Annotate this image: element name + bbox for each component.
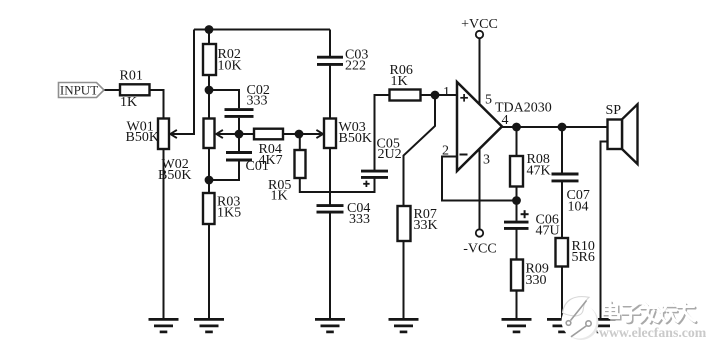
- svg-text:33K: 33K: [414, 218, 438, 233]
- wire C05 top to R06: [375, 95, 390, 171]
- wire rail down to W01 wiper: [172, 30, 194, 135]
- -VCC terminal: [476, 229, 483, 236]
- ground W01: [149, 319, 179, 332]
- wire W01 bottom to ground: [163, 149, 165, 319]
- svg-text:1K: 1K: [120, 95, 137, 110]
- junction node output-R08: [512, 123, 521, 132]
- wire feedback node down to R07: [404, 95, 436, 206]
- svg-text:B50K: B50K: [158, 168, 191, 183]
- svg-text:4K7: 4K7: [259, 153, 283, 168]
- svg-text:-VCC: -VCC: [463, 241, 496, 256]
- wire C06 to R09: [516, 229, 518, 259]
- junction node E R08-C06-pin2: [512, 196, 521, 205]
- capacitor C05 polarized: [361, 171, 388, 177]
- svg-text:SP: SP: [606, 103, 622, 118]
- potentiometer W02: [204, 119, 223, 149]
- watermark text you (friend): [678, 304, 697, 324]
- svg-text:104: 104: [568, 200, 589, 215]
- svg-text:INPUT: INPUT: [60, 83, 98, 98]
- speaker SP: [608, 104, 638, 164]
- ground C04: [315, 319, 345, 332]
- resistor R10: [556, 238, 569, 267]
- svg-text:+VCC: +VCC: [461, 17, 498, 32]
- wire speaker return to ground: [601, 142, 608, 320]
- svg-text:B50K: B50K: [126, 130, 159, 145]
- svg-text:www.elecfans.com: www.elecfans.com: [599, 325, 707, 340]
- ground R03: [194, 319, 224, 332]
- wire R10 to ground: [561, 267, 563, 320]
- +VCC terminal: [476, 31, 483, 38]
- wire node E to C06: [516, 201, 518, 221]
- wire +VCC to pin 5: [479, 38, 481, 104]
- wire W02 bottom to node C: [208, 148, 210, 180]
- resistor R01: [120, 84, 150, 95]
- wire top supply rail: [194, 29, 330, 31]
- svg-text:3: 3: [483, 153, 490, 168]
- svg-text:R01: R01: [120, 69, 143, 84]
- watermark text dian (electric): [604, 302, 621, 320]
- capacitor C06 polarized: [504, 222, 529, 228]
- watermark logo circle: [562, 297, 599, 340]
- watermark text zi (child): [622, 305, 641, 323]
- watermark text shao (burn): [658, 303, 678, 324]
- wire op-amp output to speaker: [502, 126, 608, 128]
- wire node B to R04: [239, 133, 254, 135]
- wire rail to C03: [329, 30, 331, 57]
- svg-text:1K: 1K: [391, 74, 408, 89]
- label C06 plus sign: [521, 210, 529, 218]
- capacitor C03: [317, 57, 343, 64]
- junction node output-C07: [558, 123, 567, 132]
- ground R09: [502, 319, 532, 332]
- resistor R09: [511, 260, 523, 291]
- potentiometer W01: [158, 119, 177, 150]
- junction node rail-R02: [205, 25, 214, 34]
- resistor R06: [390, 90, 421, 101]
- wire node D to W03 wiper: [299, 133, 321, 135]
- resistor R02: [203, 44, 216, 75]
- svg-text:47U: 47U: [536, 224, 560, 239]
- label C05 plus sign: [363, 181, 369, 187]
- wire pin 2 to feedback node E: [442, 157, 517, 201]
- wire C03 to W03 top: [329, 65, 331, 119]
- op-amp U1 TDA2030: [457, 82, 502, 171]
- svg-text:2: 2: [442, 143, 449, 158]
- resistor R04: [254, 129, 283, 140]
- ground R07: [389, 319, 419, 332]
- wire C01 bottom to node C: [209, 161, 239, 180]
- wire INPUT to R01: [104, 89, 120, 91]
- wire C04 bottom to ground: [329, 213, 331, 320]
- svg-text:5: 5: [485, 92, 492, 107]
- wire node to W02 top: [208, 90, 210, 119]
- wire rail to R02 top: [208, 30, 210, 45]
- wire R06 to op-amp pin 1: [421, 94, 458, 96]
- resistor R08: [510, 156, 523, 187]
- wire R08 to node E: [516, 187, 518, 201]
- capacitor C02: [225, 110, 254, 117]
- junction node R02-C02-W02: [205, 86, 214, 95]
- op-amp minus input mark: [460, 154, 468, 156]
- svg-text:1: 1: [443, 85, 450, 100]
- ground R10: [547, 319, 577, 332]
- junction node C W02-C01-R03: [205, 176, 214, 185]
- resistor R05: [295, 150, 306, 178]
- wire C07 to R10: [561, 182, 563, 238]
- wire W03 bottom to C04 top: [329, 148, 331, 205]
- wire output node to R08: [516, 127, 518, 156]
- wire pin 3 to -VCC: [479, 149, 481, 230]
- watermark text fa (emit): [641, 303, 660, 324]
- junction node D W03 wiper: [295, 130, 304, 139]
- wire R07 bottom to ground: [403, 241, 405, 319]
- capacitor C07: [552, 174, 579, 181]
- resistor R03: [203, 193, 215, 224]
- svg-text:333: 333: [349, 212, 370, 227]
- wire node B to C01 top: [238, 134, 240, 151]
- capacitor C01: [226, 153, 252, 161]
- wire R04 to node D: [283, 133, 299, 135]
- svg-text:B50K: B50K: [339, 131, 372, 146]
- wire R01 to W01 top: [150, 90, 164, 119]
- wire node to C02 top: [209, 90, 239, 108]
- wire node D to R05: [299, 134, 301, 150]
- wire R09 to ground: [516, 291, 518, 320]
- wire node C to R03: [208, 180, 210, 193]
- svg-text:222: 222: [345, 59, 366, 74]
- capacitor C04: [317, 206, 344, 213]
- watermark url www.elecfans.com: [599, 325, 707, 340]
- wire node B to W02 wiper: [218, 133, 239, 135]
- svg-text:10K: 10K: [218, 58, 242, 73]
- wire R03 bottom to ground: [208, 224, 210, 319]
- svg-text:1K: 1K: [271, 189, 288, 204]
- junction node B W02 wiper: [235, 130, 244, 139]
- svg-text:333: 333: [247, 94, 268, 109]
- wire R05 bottom to C05 bottom: [300, 178, 375, 192]
- svg-text:4: 4: [502, 113, 509, 128]
- svg-text:330: 330: [526, 273, 547, 288]
- ground speaker: [586, 319, 616, 332]
- wire C02 bottom to node B: [238, 118, 240, 134]
- svg-text:47K: 47K: [527, 164, 551, 179]
- wire R02 bottom to node: [208, 75, 210, 90]
- svg-text:5R6: 5R6: [572, 250, 595, 265]
- junction node pin1 input: [431, 91, 440, 100]
- wire output node to C07: [561, 127, 563, 173]
- svg-text:1K5: 1K5: [217, 206, 241, 221]
- potentiometer W03: [316, 119, 336, 149]
- svg-text:2U2: 2U2: [378, 147, 402, 162]
- INPUT terminal tag: [59, 83, 105, 98]
- op-amp plus input mark: [460, 94, 468, 102]
- resistor R07: [398, 206, 411, 241]
